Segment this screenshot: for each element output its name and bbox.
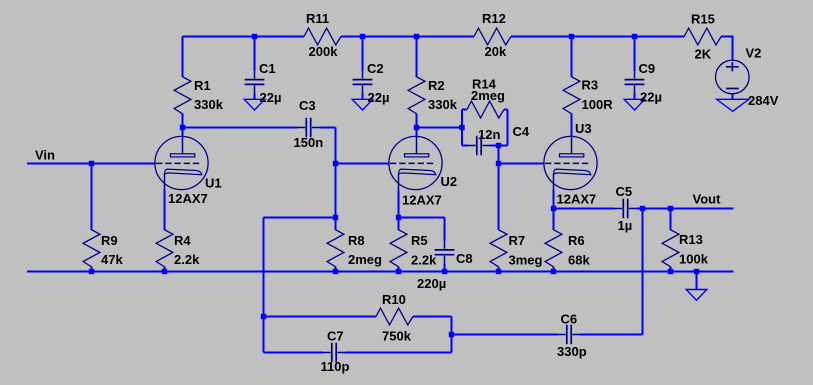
resistor R9	[83, 230, 100, 267]
node rail ground	[694, 269, 699, 274]
capacitor C8	[435, 241, 455, 263]
resistor R2	[408, 77, 425, 114]
svg-text:22µ: 22µ	[640, 90, 662, 105]
svg-text:22µ: 22µ	[368, 90, 390, 105]
wire C9 leads	[634, 37, 636, 100]
svg-text:20k: 20k	[485, 44, 507, 59]
node top rail C1	[252, 34, 257, 39]
svg-text:R7: R7	[509, 233, 526, 248]
wire Vin to U1 grid	[27, 163, 156, 165]
svg-text:2.2k: 2.2k	[174, 252, 200, 267]
svg-text:750k: 750k	[382, 329, 412, 344]
svg-text:C2: C2	[367, 61, 384, 76]
svg-text:R2: R2	[428, 78, 445, 93]
node rail R7	[496, 269, 501, 274]
wire U2 cathode row	[399, 190, 445, 272]
node U2 plate	[414, 125, 419, 130]
wire C2 leads	[362, 37, 364, 100]
node rail R4	[162, 269, 167, 274]
node C6 left	[449, 332, 454, 337]
node R13 top	[668, 206, 673, 211]
resistor R4	[156, 230, 173, 267]
svg-text:12AX7: 12AX7	[557, 192, 597, 207]
capacitor C9	[625, 71, 645, 93]
resistor R1	[174, 77, 191, 114]
wire U2 plate to R14/C4 box	[417, 110, 508, 146]
node R9 top	[89, 161, 94, 166]
svg-text:R5: R5	[411, 233, 428, 248]
resistor R3	[563, 77, 580, 114]
op-amp U1 triode tube	[155, 136, 208, 189]
resistor R8	[327, 230, 344, 267]
svg-text:68k: 68k	[568, 253, 590, 268]
wire R2 leads	[416, 37, 418, 138]
wire R1 leads	[182, 37, 184, 138]
svg-text:110p: 110p	[321, 359, 350, 374]
svg-text:C5: C5	[616, 184, 633, 199]
svg-text:220µ: 220µ	[417, 276, 446, 291]
svg-text:284V: 284V	[748, 93, 779, 108]
svg-text:1µ: 1µ	[618, 218, 633, 233]
wire feedback tap row	[264, 218, 336, 353]
svg-text:R4: R4	[174, 233, 191, 248]
wire C3 to U2 grid	[320, 128, 390, 218]
wire to U3 grid and R7	[499, 164, 545, 272]
ground under C9	[624, 99, 645, 110]
svg-text:C1: C1	[259, 61, 276, 76]
wire C1 leads	[254, 37, 256, 100]
svg-text:100R: 100R	[582, 97, 614, 112]
svg-text:R10: R10	[382, 292, 406, 307]
resistor R6	[545, 230, 562, 267]
svg-text:Vout: Vout	[693, 192, 722, 207]
svg-text:330k: 330k	[194, 97, 224, 112]
svg-text:150n: 150n	[294, 135, 324, 150]
svg-text:R8: R8	[348, 233, 365, 248]
node top rail R2	[414, 34, 419, 39]
svg-text:R1: R1	[194, 78, 211, 93]
svg-text:200k: 200k	[309, 44, 339, 59]
wire R13 leads	[670, 209, 672, 272]
svg-text:R12: R12	[482, 11, 506, 26]
svg-text:U2: U2	[441, 174, 458, 189]
wire U1 plate node to C3	[183, 127, 298, 129]
resistor R11	[304, 28, 341, 45]
ground under C2	[352, 99, 373, 110]
capacitor C4	[468, 136, 490, 156]
svg-text:3meg: 3meg	[509, 253, 543, 268]
node C4 bottom tap	[496, 143, 501, 148]
svg-text:C6: C6	[561, 312, 578, 327]
wire bottom rail	[27, 271, 734, 273]
op-amp U3 triode tube	[544, 136, 597, 189]
capacitor C1	[245, 71, 265, 93]
svg-text:C8: C8	[456, 251, 473, 266]
wire R10 branch	[264, 317, 452, 353]
voltage source V2	[716, 60, 750, 94]
capacitor C5	[615, 199, 637, 219]
node rail R9	[89, 269, 94, 274]
svg-text:R3: R3	[582, 78, 599, 93]
wire R8 leads	[335, 218, 337, 272]
svg-text:R13: R13	[679, 232, 703, 247]
wire U3 cathode row / C5 / Vout	[554, 190, 734, 230]
svg-text:12n: 12n	[478, 127, 500, 142]
resistor R5	[390, 230, 407, 267]
svg-text:100k: 100k	[679, 252, 709, 267]
resistor R15	[684, 28, 721, 45]
svg-text:2meg: 2meg	[471, 88, 505, 103]
svg-text:330p: 330p	[557, 344, 587, 359]
node top rail C2	[360, 34, 365, 39]
junction nodes	[89, 34, 699, 337]
wire C6 branch	[452, 334, 643, 336]
node U3 cathode	[551, 206, 556, 211]
node U1 plate	[180, 125, 185, 130]
svg-text:R6: R6	[568, 233, 585, 248]
node feedback tap R8	[333, 215, 338, 220]
node rail C8	[442, 269, 447, 274]
svg-text:R11: R11	[306, 11, 329, 26]
svg-text:2.2k: 2.2k	[411, 253, 437, 268]
wire ground stub right	[696, 272, 698, 290]
svg-text:R15: R15	[691, 12, 715, 27]
svg-text:2meg: 2meg	[348, 252, 382, 267]
wire V2 leads	[732, 36, 734, 100]
svg-text:U1: U1	[205, 176, 222, 191]
wire top rail segments	[183, 36, 733, 38]
svg-text:22µ: 22µ	[260, 90, 282, 105]
ground under V2	[717, 99, 749, 111]
node U2 cathode	[396, 215, 401, 220]
node rail R6	[551, 269, 556, 274]
node R10 left	[261, 314, 266, 319]
svg-text:2K: 2K	[695, 47, 712, 62]
wire C7 branch	[264, 352, 452, 354]
wire R3 leads	[571, 37, 573, 138]
ground under C1	[244, 99, 265, 110]
svg-text:C9: C9	[639, 61, 656, 76]
node top rail R3	[569, 34, 574, 39]
node rail R13	[668, 269, 673, 274]
svg-text:C3: C3	[299, 98, 316, 113]
wire feedback vertical to Vout	[642, 209, 644, 335]
capacitor C7	[323, 343, 345, 363]
node R14 box left	[459, 125, 464, 130]
wire C4 branch	[462, 146, 508, 164]
resistor R12	[474, 28, 511, 45]
op-amp U2 triode tube	[389, 136, 442, 189]
resistor R14	[467, 101, 504, 118]
node rail R8	[333, 269, 338, 274]
resistor R13	[662, 230, 679, 267]
wire U1 cathode to R4	[164, 190, 166, 272]
svg-text:47k: 47k	[101, 252, 123, 267]
svg-text:U3: U3	[575, 121, 592, 136]
node top rail C9	[632, 34, 637, 39]
svg-text:V2: V2	[746, 46, 762, 61]
capacitor C6	[558, 325, 580, 345]
capacitor C2	[353, 71, 373, 93]
node feedback vertical top	[640, 206, 645, 211]
svg-text:Vin: Vin	[35, 148, 55, 163]
svg-text:330k: 330k	[428, 97, 458, 112]
node U2 grid	[333, 161, 338, 166]
svg-text:C4: C4	[513, 124, 530, 139]
capacitor C3	[298, 118, 320, 138]
wire R6 lead	[553, 267, 555, 272]
svg-text:R9: R9	[101, 233, 118, 248]
ground at output rail	[686, 290, 707, 301]
node U3 grid	[496, 161, 501, 166]
wire R9 branch	[91, 164, 93, 272]
wire R5 lead	[398, 267, 400, 272]
resistor R10	[376, 308, 413, 325]
svg-text:12AX7: 12AX7	[402, 193, 442, 208]
svg-text:C7: C7	[327, 329, 344, 344]
svg-text:12AX7: 12AX7	[168, 191, 208, 206]
resistor R7	[490, 230, 507, 267]
node rail R5	[396, 269, 401, 274]
